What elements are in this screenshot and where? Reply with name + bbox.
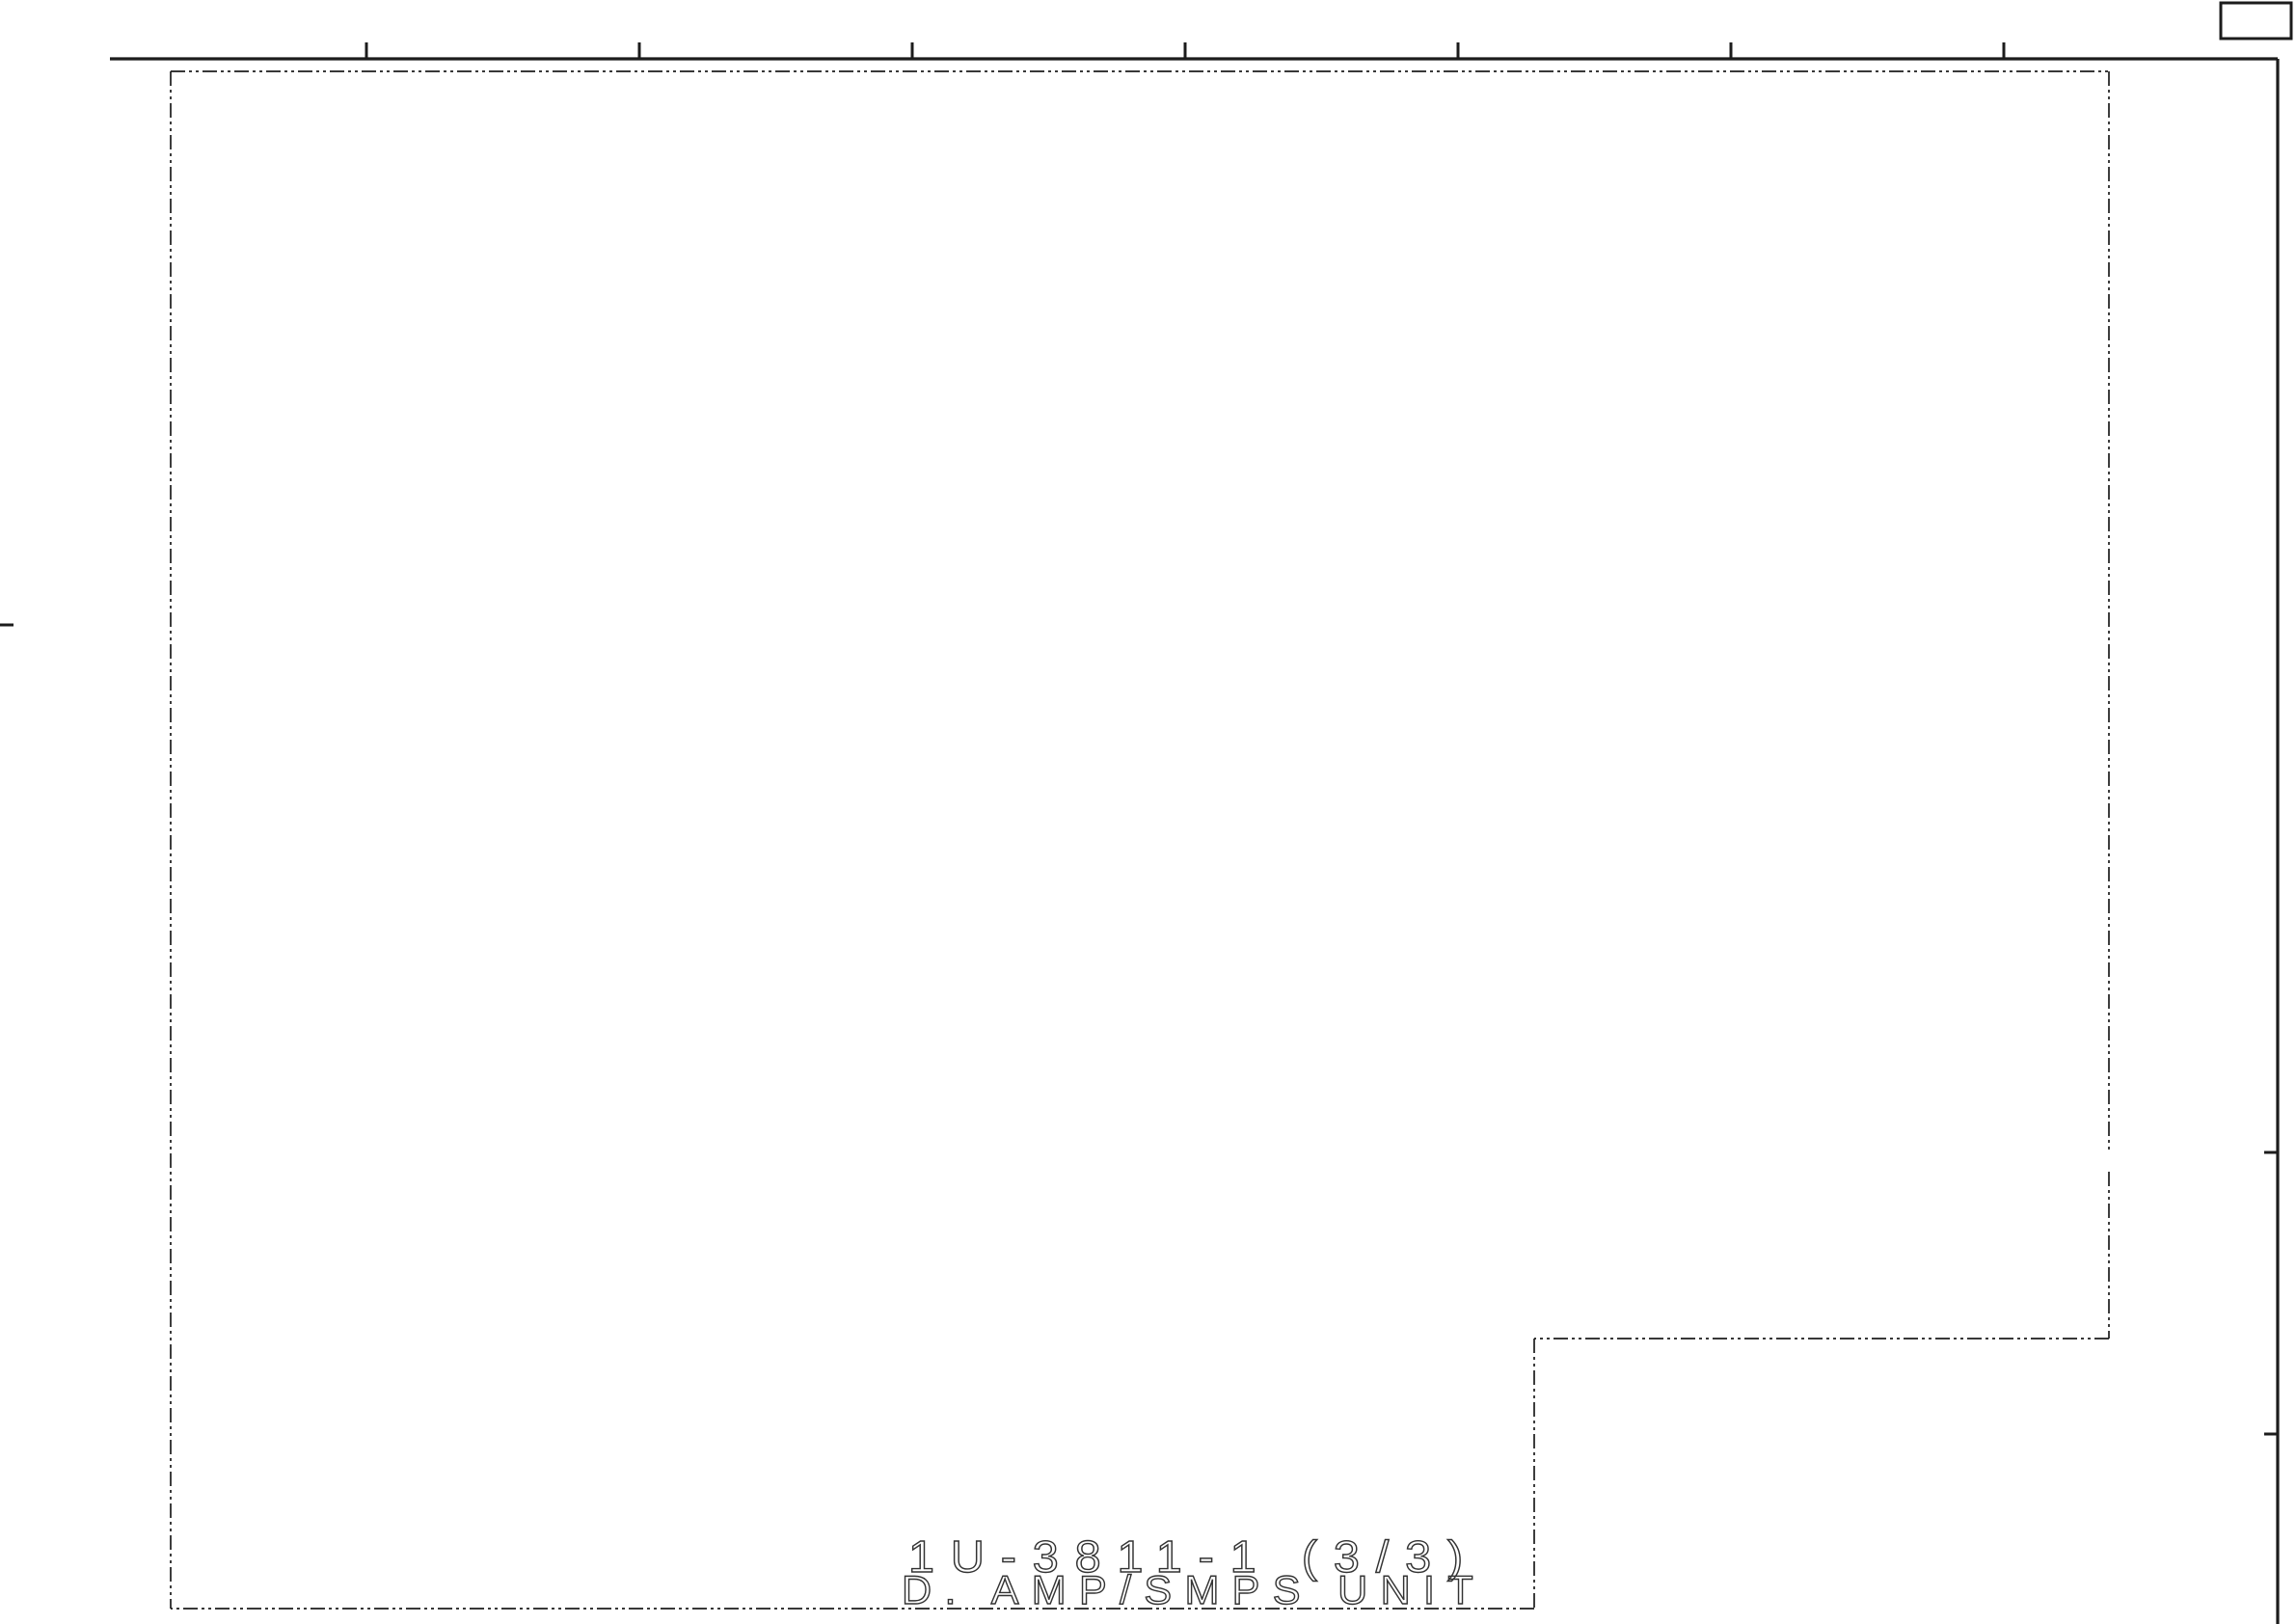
svg-text:D. AMP/SMPS UNIT: D. AMP/SMPS UNIT bbox=[902, 1567, 1486, 1612]
